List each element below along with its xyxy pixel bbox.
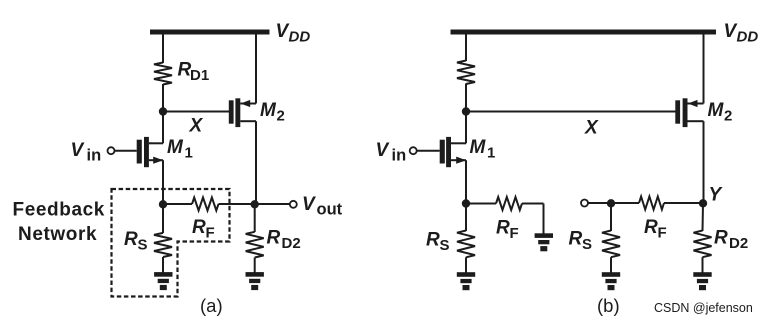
svg-text:R: R <box>124 229 138 250</box>
svg-text:R: R <box>496 218 510 239</box>
svg-text:F: F <box>658 225 667 242</box>
svg-text:V: V <box>376 140 390 161</box>
wire: node X to M2 gate (a) <box>163 111 229 113</box>
svg-text:(a): (a) <box>200 295 223 316</box>
svg-text:2: 2 <box>277 108 285 125</box>
wire: M1 source to source node (b) <box>465 160 467 203</box>
wire: terminal to node (b right) <box>588 202 611 204</box>
resistor RS (b right) <box>602 231 620 258</box>
wire: RS to ground (a) <box>162 257 164 273</box>
input terminal Vin (b) <box>410 147 417 154</box>
svg-text:F: F <box>510 225 519 242</box>
wire: M2 source to VDD rail (a) <box>255 35 257 104</box>
svg-text:CSDN @jefenson: CSDN @jefenson <box>654 301 753 315</box>
wire: M1 drain to node X (a) <box>162 112 164 144</box>
label M1 (b) <box>470 137 496 162</box>
label Feedback Network <box>13 200 105 246</box>
ground under RD2 (b) <box>693 272 711 290</box>
wire: node to RS (b right) <box>610 203 612 231</box>
label Vin (b) <box>376 140 407 165</box>
svg-text:Feedback: Feedback <box>13 200 105 221</box>
wire: VDD rail to RD1 (b) <box>465 35 467 62</box>
wire: Vin terminal to M1 gate (a) <box>114 150 136 152</box>
svg-text:V: V <box>71 140 85 161</box>
svg-text:R: R <box>644 217 658 238</box>
svg-text:Network: Network <box>18 224 97 245</box>
resistor RF (a) <box>192 198 219 211</box>
wire: corner down to ground (b left) <box>543 204 545 234</box>
VDD rail (b) <box>451 30 717 35</box>
wire: RF to ground corner (b left) <box>522 203 544 205</box>
resistor RF (b left) <box>496 197 522 210</box>
svg-text:V: V <box>276 21 290 42</box>
resistor RS (b left) <box>457 231 475 258</box>
wire: RF to Vout node (a) <box>219 203 256 205</box>
label RF (b left) <box>496 218 519 243</box>
wire: source node to RF (b left) <box>466 203 496 205</box>
VDD rail (a) <box>150 30 270 35</box>
label RS (a) <box>124 229 148 254</box>
svg-text:S: S <box>138 237 148 254</box>
svg-text:D2: D2 <box>729 235 748 252</box>
wire: RD2 to ground (a) <box>254 258 256 273</box>
label M2 (b) <box>708 100 733 125</box>
wire: RS to ground (b right) <box>610 257 612 272</box>
svg-text:D1: D1 <box>190 67 209 84</box>
label RD2 (a) <box>267 228 301 253</box>
svg-text:in: in <box>87 147 102 165</box>
wire: node to RF (b right) <box>611 202 639 204</box>
node X (b) <box>462 107 470 115</box>
resistor RD2 (a) <box>246 232 264 258</box>
label M2 (a) <box>260 100 285 125</box>
resistor RF (b right) <box>639 197 664 210</box>
wire: M2 source to VDD rail (b) <box>703 35 705 104</box>
transistor M1 (NMOS) (b) <box>440 137 467 167</box>
svg-text:M: M <box>167 137 184 158</box>
wire: node Y to RD2 (b) <box>702 203 705 231</box>
label M1 (a) <box>167 137 193 162</box>
node X (a) <box>159 107 167 115</box>
wire: RF to node Y (b right) <box>664 202 703 204</box>
transistor M1 (NMOS) (a) <box>137 137 164 167</box>
input terminal Vin (a) <box>108 147 115 154</box>
transistor M2 (PMOS) (a) <box>229 98 256 127</box>
node Y <box>699 199 707 207</box>
svg-text:X: X <box>189 116 204 137</box>
wire: node X to M2 gate (b) <box>466 111 676 113</box>
resistor RD2 (b) <box>694 231 712 258</box>
wire: Vout node to output terminal <box>255 203 290 205</box>
label VDD (a) <box>276 21 311 46</box>
output terminal Vout <box>290 201 297 208</box>
ground under RS (a) <box>154 272 172 290</box>
ground: RF termination (b left) <box>535 233 553 251</box>
svg-text:M: M <box>260 100 277 121</box>
wire: feedback node to RS (a) <box>162 204 164 233</box>
resistor RS (a) <box>154 233 172 257</box>
svg-text:out: out <box>317 201 343 219</box>
svg-text:F: F <box>206 225 215 242</box>
wire: Vin terminal to M1 gate (b) <box>417 150 440 152</box>
label RD2 (b) <box>714 228 748 253</box>
svg-text:R: R <box>569 229 583 250</box>
resistor RD1 (b, unlabeled) <box>457 61 475 85</box>
svg-text:X: X <box>584 118 599 139</box>
ground under RS (b right) <box>602 272 620 290</box>
svg-text:1: 1 <box>185 145 193 162</box>
wire: VDD rail to RD1 <box>162 35 164 64</box>
node: M1 source / feedback node (a) <box>159 200 167 208</box>
input terminal of replica network (b right) <box>581 200 588 207</box>
label Vin (a) <box>71 140 102 165</box>
svg-text:2: 2 <box>724 108 732 125</box>
svg-text:M: M <box>708 100 725 121</box>
transistor M2 (PMOS) (b) <box>675 98 703 127</box>
svg-text:R: R <box>426 230 440 251</box>
label RF (b right) <box>644 217 667 242</box>
ground under RD2 (a) <box>246 272 264 290</box>
svg-text:R: R <box>192 217 206 238</box>
wire: M1 source to feedback node (a) <box>162 160 164 204</box>
wire: source node to RS (b left) <box>465 204 467 232</box>
wire: RS to ground (b left) <box>465 257 467 272</box>
svg-text:DD: DD <box>289 29 311 46</box>
svg-text:V: V <box>302 194 316 215</box>
label RF (a) <box>192 217 215 242</box>
svg-text:1: 1 <box>487 145 495 162</box>
wire: RD2 to ground (b) <box>702 257 704 272</box>
label RS (b right) <box>569 229 593 254</box>
svg-text:D2: D2 <box>282 235 301 252</box>
resistor RD1 <box>154 63 172 85</box>
svg-text:DD: DD <box>737 29 759 46</box>
ground under RS (b left) <box>457 272 475 290</box>
wire: M1 drain to node X (b) <box>465 112 467 144</box>
node: replica source node (b right) <box>607 199 615 207</box>
svg-text:M: M <box>470 137 487 158</box>
node: M1 source node (b) <box>462 199 470 207</box>
label RD1 <box>178 60 210 85</box>
label RS (b left) <box>426 230 450 255</box>
wire: RD1 to node X (b) <box>465 84 467 112</box>
svg-text:in: in <box>392 147 407 165</box>
wire: RD1 to node X (a) <box>162 84 164 112</box>
label VDD (b) <box>724 21 759 46</box>
svg-text:(b): (b) <box>597 295 620 316</box>
wire: Vout node to RD2 (a) <box>254 204 256 232</box>
node Vout (a) <box>251 200 259 208</box>
svg-text:S: S <box>440 237 450 254</box>
svg-text:R: R <box>714 228 728 249</box>
feedback network dashed box <box>112 189 230 297</box>
svg-text:S: S <box>582 236 592 253</box>
svg-text:R: R <box>267 228 281 249</box>
wire: M2 drain to Vout node (a) <box>255 121 257 204</box>
label Vout <box>302 194 343 219</box>
wire: M2 drain to node Y <box>703 121 705 203</box>
wire: feedback node to RF (a) <box>163 203 192 205</box>
svg-text:V: V <box>724 21 738 42</box>
